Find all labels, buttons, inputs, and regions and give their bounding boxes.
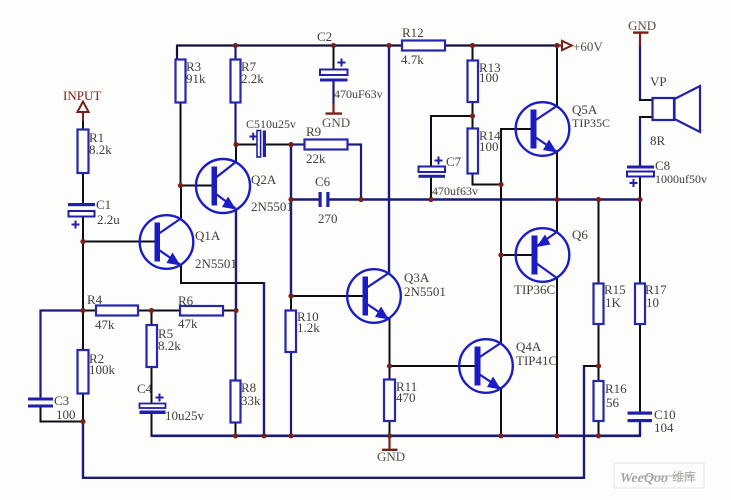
- wire R8 top lead: [234, 311, 236, 381]
- svg-text:C3: C3: [54, 393, 69, 408]
- wire C5 node to C5 left plate: [236, 144, 257, 146]
- wire R17 bottom to C10: [639, 324, 641, 412]
- svg-text:C6: C6: [315, 174, 331, 189]
- wire GND bottom stub: [388, 436, 390, 450]
- wire speaker to C8: [639, 117, 641, 167]
- wire R9 right lead and drop to output rail: [348, 143, 362, 145]
- svg-text:2.2k: 2.2k: [241, 71, 264, 86]
- transistor Q6 (PNP): [516, 228, 570, 282]
- wire Q6 base: [501, 254, 533, 256]
- capacitor C4: [140, 404, 166, 409]
- svg-text:56: 56: [606, 395, 620, 410]
- watermark WeeQoo: [614, 463, 704, 488]
- transistor Q1A: [140, 215, 194, 269]
- svg-text:100: 100: [479, 70, 499, 85]
- wire INPUT stub: [82, 112, 84, 122]
- svg-text:R4: R4: [87, 292, 103, 307]
- svg-text:1.2k: 1.2k: [297, 320, 320, 335]
- resistor R4: [96, 306, 138, 316]
- svg-text:C4: C4: [137, 381, 153, 396]
- wire rail y=310.5 R4..R6: [83, 310, 96, 312]
- wire R16 bottom: [598, 421, 600, 436]
- wire R1 bottom to C1: [82, 173, 84, 204]
- transistor Q5A: [516, 102, 570, 156]
- svg-text:33k: 33k: [241, 393, 261, 408]
- svg-text:WeeQoo: WeeQoo: [620, 471, 668, 486]
- wire C7 bottom to output rail: [430, 177, 432, 200]
- svg-text:22k: 22k: [306, 151, 326, 166]
- svg-text:Q2A: Q2A: [251, 172, 277, 187]
- wire Q2A emitter down to R6 node: [235, 210, 237, 311]
- wire Q5A emitter to output rail: [556, 151, 558, 200]
- wire R10 bottom to ground bus: [290, 352, 292, 436]
- wire R2 top lead: [82, 311, 84, 351]
- wire C10 bottom to ground bus right end: [639, 422, 641, 437]
- wire x=501 down to Q6 base node: [500, 185, 502, 256]
- svg-text:C1: C1: [96, 197, 111, 212]
- wire Q6 collector to ground bus: [556, 278, 558, 437]
- ground bar C2: [326, 112, 343, 114]
- wire C2 top lead: [333, 45, 335, 70]
- resistor R16: [594, 381, 604, 421]
- svg-text:C510u25v: C510u25v: [246, 117, 296, 131]
- resistor R1: [78, 130, 89, 174]
- wire R9 left lead: [291, 143, 305, 145]
- node B dot (R13/R14/C7): [470, 113, 475, 118]
- wire output rail y=199.5: [291, 198, 319, 200]
- resistor R2: [78, 350, 89, 394]
- svg-text:100k: 100k: [89, 362, 116, 377]
- svg-text:+60V: +60V: [573, 39, 603, 54]
- svg-text:GND: GND: [322, 115, 350, 130]
- wire C1 bottom to base node: [82, 217, 84, 243]
- svg-text:270: 270: [318, 211, 338, 226]
- svg-text:1K: 1K: [605, 295, 622, 310]
- svg-text:R6: R6: [178, 293, 194, 308]
- svg-text:R16: R16: [605, 381, 627, 396]
- svg-text:2N5501: 2N5501: [404, 284, 446, 299]
- resistor R13: [468, 61, 479, 103]
- transistor Q4A: [459, 339, 513, 393]
- capacitor C10: [628, 412, 653, 415]
- wire Q6 emitter up to output rail: [556, 199, 558, 233]
- resistor R6: [180, 306, 223, 316]
- resistor R7: [231, 60, 241, 103]
- svg-text:8.2k: 8.2k: [158, 338, 181, 353]
- wire R11 leads: [389, 366, 391, 380]
- wire R14 bottom jog to x=501: [472, 174, 474, 185]
- resistor R14: [468, 129, 479, 174]
- resistor R17: [635, 284, 645, 325]
- wire node B left to C7 top: [431, 115, 473, 117]
- svg-text:8.2k: 8.2k: [89, 142, 112, 157]
- wire R17 top lead from output rail: [639, 199, 641, 284]
- capacitor C7: [419, 167, 446, 173]
- node dot Q3A emitter/R11/Q4A base: [387, 363, 392, 368]
- resistor R12: [402, 41, 445, 51]
- svg-text:TIP36C: TIP36C: [514, 282, 555, 297]
- wire C5 right plate to R9 node: [266, 144, 292, 146]
- node dot Q3A base: [288, 293, 293, 298]
- wire C8 bottom to output rail: [639, 176, 641, 200]
- svg-text:Q3A: Q3A: [404, 270, 430, 285]
- capacitor C3: [28, 398, 53, 401]
- wire base node down to R4 node: [82, 242, 84, 312]
- svg-text:91k: 91k: [186, 71, 206, 86]
- resistor R3: [176, 60, 186, 103]
- speaker VP: [653, 98, 675, 120]
- svg-text:TIP35C: TIP35C: [572, 116, 610, 130]
- svg-text:GND: GND: [628, 18, 656, 33]
- wire C2 bottom to GND: [332, 81, 334, 105]
- wire C3 bottom to R2 bottom node: [40, 407, 42, 423]
- wire Q5A collector to bus: [556, 45, 558, 107]
- wire speaker stubs: [639, 99, 653, 101]
- wire R14 top lead: [472, 116, 474, 129]
- wire feedback: R2 node down and right to x=584: [82, 422, 84, 480]
- svg-text:TIP41C: TIP41C: [516, 353, 557, 368]
- svg-text:Q1A: Q1A: [195, 228, 221, 243]
- resistor R9: [305, 140, 348, 150]
- capacitor C1: [68, 203, 95, 206]
- svg-text:Q5A: Q5A: [572, 102, 598, 117]
- wire top supply bus y=45.5: [177, 44, 557, 46]
- svg-text:47k: 47k: [178, 316, 198, 331]
- capacitor C2: [320, 70, 348, 76]
- wire base node to Q1A base: [83, 241, 156, 243]
- node A dot: [178, 183, 183, 188]
- wire R2 bottom: [82, 394, 84, 423]
- svg-text:470uF63v: 470uF63v: [334, 87, 383, 101]
- svg-text:C8: C8: [655, 158, 670, 173]
- wire Q1A emitter jog to x=264 down to ground bus: [180, 265, 182, 285]
- wire R5 top lead: [151, 311, 153, 326]
- svg-text:C2: C2: [317, 29, 332, 44]
- svg-text:1000uf50v: 1000uf50v: [655, 172, 707, 186]
- wire VAS collector line x=389 from bus to Q3A: [388, 45, 390, 275]
- wire x=501 node up to Q5A base: [500, 129, 502, 186]
- svg-text:470: 470: [396, 390, 416, 405]
- wire C3 branch left: [41, 309, 85, 311]
- svg-text:C7: C7: [446, 154, 462, 169]
- wire Q6 base node down to Q4A collector: [500, 255, 502, 345]
- arrow INPUT: [77, 102, 88, 113]
- wire R5 bottom to C4: [151, 367, 153, 404]
- node dots bias rail y=310.5: [80, 308, 85, 313]
- svg-text:470uf63v: 470uf63v: [432, 184, 478, 198]
- wire +60V stub: [557, 44, 562, 46]
- svg-text:Q4A: Q4A: [516, 339, 542, 354]
- resistor R5: [147, 325, 158, 367]
- wire Q3A emitter down to node (390,366): [389, 318, 391, 368]
- resistor R8: [231, 381, 241, 423]
- capacitor C8: [627, 166, 654, 169]
- wire R7 bottom to C5 node: [234, 103, 236, 146]
- resistor R15: [594, 284, 604, 325]
- node dot R2/C3 bottom: [80, 419, 85, 424]
- svg-text:10u25v: 10u25v: [165, 408, 205, 423]
- svg-text:104: 104: [654, 420, 674, 435]
- wire R13 top lead: [472, 45, 474, 61]
- svg-text:47k: 47k: [95, 317, 115, 332]
- wire Q2A collector up to C5 node: [235, 145, 237, 163]
- wire Q3A base: [291, 295, 363, 297]
- svg-text:100: 100: [479, 139, 499, 154]
- wire GND top right stub: [639, 33, 641, 47]
- wire R15 bottom to node C: [598, 324, 600, 367]
- svg-text:R9: R9: [306, 124, 321, 139]
- svg-text:2N5501: 2N5501: [195, 256, 237, 271]
- node dots output rail: [288, 197, 293, 202]
- wire Q4A emitter to ground bus: [500, 388, 502, 437]
- node dot R15/R16/feedback: [596, 363, 601, 368]
- resistor R10: [286, 311, 297, 353]
- wire ground bus y=435.8: [152, 434, 642, 437]
- node dots ground bus: [233, 433, 238, 438]
- wire R9 node down to Q3A base node x=291: [290, 145, 292, 297]
- svg-text:2.2u: 2.2u: [97, 212, 120, 227]
- svg-text:VP: VP: [650, 74, 667, 89]
- resistor R11: [384, 380, 395, 422]
- wire R13 bottom to node B: [472, 102, 474, 117]
- wire node A to Q2A base: [181, 185, 213, 187]
- wire R16 top lead: [598, 366, 600, 381]
- wire R8 bottom: [235, 423, 237, 437]
- capacitor C6: [319, 192, 322, 207]
- wire R3 bottom to node A (Q2A base / Q1A collector): [180, 103, 182, 187]
- svg-text:GND: GND: [377, 449, 405, 464]
- node dots x=501: [498, 182, 503, 187]
- svg-text:8R: 8R: [650, 133, 666, 148]
- svg-text:INPUT: INPUT: [63, 88, 101, 103]
- svg-text:10: 10: [646, 295, 659, 310]
- transistor Q2A: [196, 159, 250, 213]
- svg-text:2N5501: 2N5501: [251, 199, 293, 214]
- arrow +60V: [562, 41, 572, 50]
- wire node to Q4A base: [390, 365, 476, 367]
- wire R10 top lead: [290, 296, 292, 311]
- node dot C1/Q1A base: [80, 239, 85, 244]
- node dots C5 row: [233, 142, 238, 147]
- capacitor C5: [257, 131, 261, 158]
- wire R7 top lead: [234, 45, 236, 61]
- svg-text:4.7k: 4.7k: [401, 52, 424, 67]
- svg-text:Q6: Q6: [572, 227, 588, 242]
- wire R15 top lead from output rail: [598, 199, 600, 284]
- transistor Q3A: [347, 269, 401, 323]
- svg-text:100: 100: [56, 407, 76, 422]
- wire Q1A collector up to node A: [180, 186, 182, 220]
- wire C4 bottom to ground bus: [151, 414, 153, 437]
- wire R3 branch x=180.5 top lead: [176, 45, 178, 62]
- svg-text:R12: R12: [402, 25, 424, 40]
- node dots top bus: [80, 43, 642, 439]
